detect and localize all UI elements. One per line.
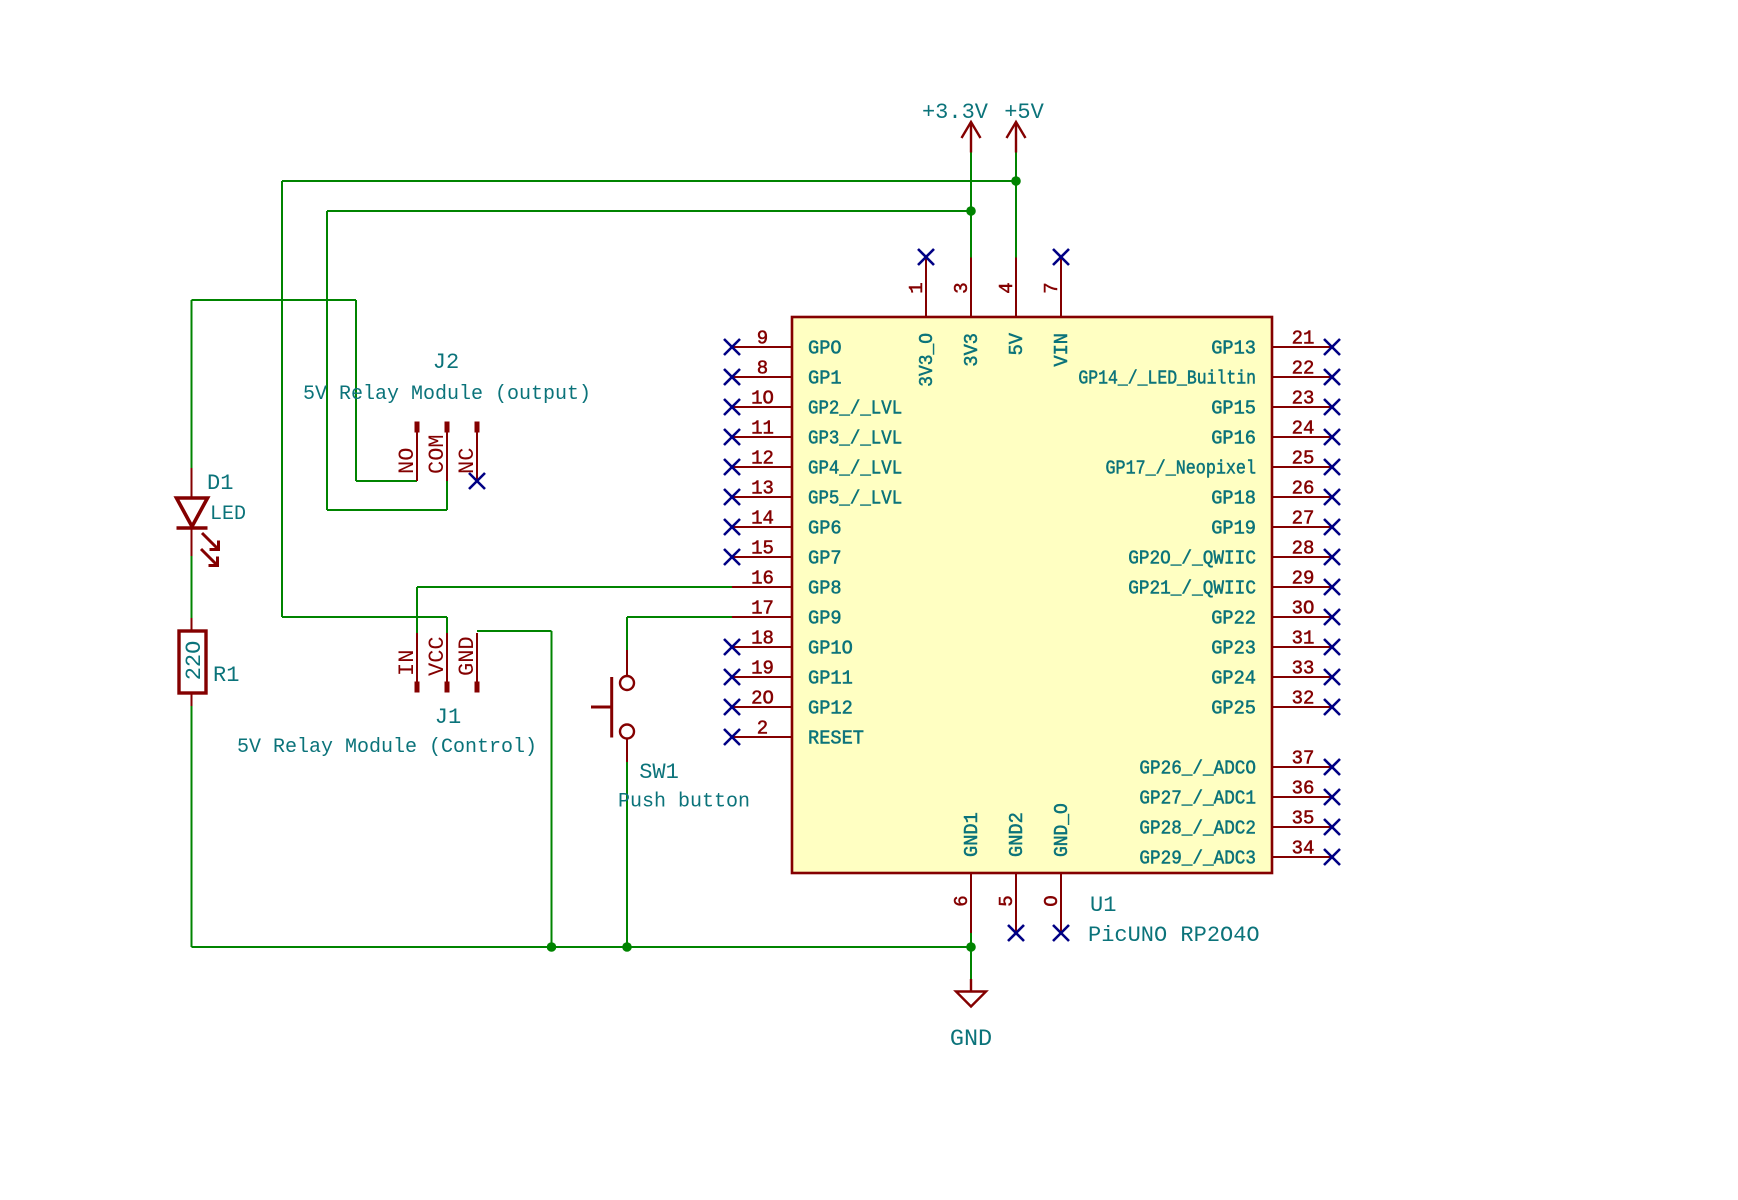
pin 18 GP10 (U1 left) (732, 628, 853, 660)
svg-text:37: 37 (1292, 748, 1315, 770)
pin 0 GND_O (U1 bottom) (1041, 803, 1073, 933)
pin 23 GP15 (U1 right) (1211, 388, 1332, 420)
svg-text:J1: J1 (435, 705, 461, 730)
wire +3.3V symbol to U1 3V3 pin (970, 153, 972, 258)
no-connect X on pin 2 (724, 729, 740, 745)
no-connect X on pin 25 (1324, 459, 1340, 475)
svg-text:21: 21 (1292, 328, 1315, 350)
svg-text:GP2_/_LVL: GP2_/_LVL (808, 398, 902, 420)
svg-text:GP23: GP23 (1211, 638, 1256, 660)
svg-text:12: 12 (751, 448, 774, 470)
pin 13 GP5_/_LVL (U1 left) (732, 478, 902, 510)
no-connect X on pin 14 (724, 519, 740, 535)
svg-text:3V3: 3V3 (961, 333, 983, 367)
svg-text:VCC: VCC (425, 636, 450, 676)
no-connect X on pin 7 (1053, 249, 1069, 265)
no-connect X on pin 10 (724, 399, 740, 415)
svg-text:GND2: GND2 (1006, 812, 1028, 857)
pin 21 GP13 (U1 right) (1211, 328, 1332, 360)
svg-text:GP18: GP18 (1211, 488, 1256, 510)
svg-text:36: 36 (1292, 778, 1315, 800)
no-connect X on pin 19 (724, 669, 740, 685)
svg-text:GP28_/_ADC2: GP28_/_ADC2 (1139, 818, 1256, 840)
node ground rail junction SW1 (622, 942, 632, 952)
no-connect X on pin 5 (1008, 925, 1024, 941)
svg-text:32: 32 (1292, 688, 1315, 710)
pin 32 GP25 (U1 right) (1211, 688, 1332, 720)
svg-text:22O: 22O (182, 641, 207, 681)
no-connect X on pin 23 (1324, 399, 1340, 415)
svg-text:GP6: GP6 (808, 518, 842, 540)
svg-text:GP21_/_QWIIC: GP21_/_QWIIC (1128, 578, 1256, 600)
svg-text:GP9: GP9 (808, 608, 842, 630)
svg-text:22: 22 (1292, 358, 1315, 380)
diode D1 LED symbol (177, 468, 219, 566)
svg-text:GP12: GP12 (808, 698, 853, 720)
no-connect X on pin 12 (724, 459, 740, 475)
pin 37 GP26_/_ADC0 (U1 right) (1139, 748, 1332, 780)
no-connect X on pin 36 (1324, 789, 1340, 805)
svg-text:13: 13 (751, 478, 774, 500)
pin 14 GP6 (U1 left) (732, 508, 842, 540)
no-connect X on pin 29 (1324, 579, 1340, 595)
power symbol +5V (1004, 100, 1044, 153)
svg-text:2: 2 (757, 718, 768, 740)
svg-text:24: 24 (1292, 418, 1315, 440)
svg-text:GP19: GP19 (1211, 518, 1256, 540)
svg-text:GP1O: GP1O (808, 638, 853, 660)
wire J2 NO vertical (355, 300, 357, 481)
svg-text:25: 25 (1292, 448, 1315, 470)
wire LED anode vertical (191, 300, 193, 468)
pin 4 5V (U1 top) (996, 257, 1028, 355)
power symbol +3.3V (922, 100, 989, 153)
pin 33 GP24 (U1 right) (1211, 658, 1332, 690)
wire +3.3V horizontal top (327, 210, 971, 212)
pin 25 GP17_/_Neopixel (U1 right) (1106, 448, 1333, 480)
no-connect X on pin 15 (724, 549, 740, 565)
svg-text:RESET: RESET (808, 728, 864, 750)
svg-text:GP2O_/_QWIIC: GP2O_/_QWIIC (1128, 548, 1256, 570)
svg-text:1O: 1O (751, 388, 774, 410)
pin 28 GP20_/_QWIIC (U1 right) (1128, 538, 1332, 570)
pin 5 GND2 (U1 bottom) (996, 812, 1028, 933)
pin 17 GP9 (U1 left) (732, 598, 842, 630)
svg-text:19: 19 (751, 658, 774, 680)
svg-text:3O: 3O (1292, 598, 1315, 620)
resistor R1 220 (179, 618, 206, 706)
no-connect X on pin 28 (1324, 549, 1340, 565)
svg-text:GP7: GP7 (808, 548, 842, 570)
wire +5V horizontal top (282, 180, 1016, 182)
no-connect X on pin 37 (1324, 759, 1340, 775)
svg-text:15: 15 (751, 538, 774, 560)
pin 3 3V3 (U1 top) (951, 257, 983, 367)
no-connect X on pin 0 (1053, 925, 1069, 941)
no-connect X on pin 1 (918, 249, 934, 265)
no-connect X on pin 31 (1324, 639, 1340, 655)
no-connect X on pin 30 (1324, 609, 1340, 625)
svg-text:GND1: GND1 (961, 812, 983, 857)
switch SW1 push button (591, 650, 634, 762)
wire J2 NO to LED horizontal (192, 299, 357, 301)
svg-text:GP14_/_LED_Builtin: GP14_/_LED_Builtin (1078, 368, 1256, 390)
svg-text:GPO: GPO (808, 338, 842, 360)
wire J2 COM stub up (446, 481, 448, 510)
svg-text:NC: NC (455, 448, 480, 474)
pin 30 GP22 (U1 right) (1211, 598, 1332, 630)
svg-text:5: 5 (996, 895, 1018, 906)
pin 20 GP12 (U1 left) (732, 688, 853, 720)
wire +5V to J1 VCC horizontal (282, 616, 447, 618)
no-connect X on pin 11 (724, 429, 740, 445)
svg-text:GND: GND (950, 1026, 992, 1053)
pin 8 GP1 (U1 left) (732, 358, 842, 390)
no-connect X on pin 22 (1324, 369, 1340, 385)
svg-text:GP27_/_ADC1: GP27_/_ADC1 (1139, 788, 1256, 810)
pin 10 GP2_/_LVL (U1 left) (732, 388, 902, 420)
svg-text:GP17_/_Neopixel: GP17_/_Neopixel (1106, 458, 1257, 480)
svg-text:5V Relay Module (Control): 5V Relay Module (Control) (237, 736, 537, 759)
svg-text:17: 17 (751, 598, 774, 620)
svg-text:GND: GND (455, 636, 480, 676)
svg-text:Push button: Push button (618, 791, 750, 814)
wire GP9 to SW1 horizontal (627, 616, 732, 618)
wire LED cathode to R1 (191, 556, 193, 618)
svg-text:PicUNO RP2O4O: PicUNO RP2O4O (1088, 923, 1260, 948)
svg-text:COM: COM (425, 434, 450, 474)
pin 6 GND1 (U1 bottom) (951, 812, 983, 933)
pin 1 3V3_O (U1 top) (906, 257, 938, 387)
wire ground rail (192, 946, 972, 948)
pin 26 GP18 (U1 right) (1211, 478, 1332, 510)
svg-text:7: 7 (1041, 282, 1063, 293)
pin 35 GP28_/_ADC2 (U1 right) (1139, 808, 1332, 840)
svg-text:16: 16 (751, 568, 774, 590)
svg-text:J2: J2 (433, 350, 459, 375)
wire R1 to ground rail (191, 706, 193, 947)
wire J1 VCC stub down (446, 617, 448, 633)
svg-text:GP22: GP22 (1211, 608, 1256, 630)
no-connect X on pin 35 (1324, 819, 1340, 835)
wire +5V symbol to U1 5V pin (1015, 153, 1017, 258)
no-connect X on pin 24 (1324, 429, 1340, 445)
svg-text:IN: IN (395, 650, 420, 676)
svg-text:6: 6 (951, 895, 973, 906)
svg-text:8: 8 (757, 358, 768, 380)
no-connect X on pin 9 (724, 339, 740, 355)
svg-text:GP11: GP11 (808, 668, 853, 690)
svg-text:GP4_/_LVL: GP4_/_LVL (808, 458, 902, 480)
svg-text:GP25: GP25 (1211, 698, 1256, 720)
node +3.3V junction at 3V3 pin (966, 206, 976, 216)
svg-text:3: 3 (951, 282, 973, 293)
pin 19 GP11 (U1 left) (732, 658, 853, 690)
svg-text:O: O (1041, 895, 1063, 906)
pin 7 VIN (U1 top) (1041, 257, 1073, 367)
pin 22 GP14_/_LED_Builtin (U1 right) (1078, 358, 1332, 390)
node ground rail junction GND1 (966, 942, 976, 952)
svg-text:27: 27 (1292, 508, 1315, 530)
pin 12 GP4_/_LVL (U1 left) (732, 448, 902, 480)
connector J1 5V Relay Module (Control) (395, 633, 480, 693)
svg-text:GP15: GP15 (1211, 398, 1256, 420)
svg-text:+3.3V: +3.3V (922, 100, 989, 125)
no-connect X on J2 NC (469, 473, 485, 489)
pin 11 GP3_/_LVL (U1 left) (732, 418, 902, 450)
no-connect X on pin 20 (724, 699, 740, 715)
wire J1 GND horizontal (477, 630, 552, 632)
no-connect X on pin 26 (1324, 489, 1340, 505)
ground symbol GND (950, 979, 992, 1053)
no-connect X on pin 8 (724, 369, 740, 385)
svg-text:GP3_/_LVL: GP3_/_LVL (808, 428, 902, 450)
svg-text:NO: NO (395, 448, 420, 474)
svg-text:GP16: GP16 (1211, 428, 1256, 450)
svg-text:D1: D1 (207, 471, 233, 496)
svg-text:2O: 2O (751, 688, 774, 710)
svg-text:34: 34 (1292, 838, 1315, 860)
svg-text:29: 29 (1292, 568, 1315, 590)
wire U1 GND1 to GND symbol (970, 933, 972, 979)
svg-text:18: 18 (751, 628, 774, 650)
svg-text:GP29_/_ADC3: GP29_/_ADC3 (1139, 848, 1256, 870)
svg-text:SW1: SW1 (639, 760, 679, 785)
svg-text:GP5_/_LVL: GP5_/_LVL (808, 488, 902, 510)
svg-text:+5V: +5V (1004, 100, 1044, 125)
svg-text:GND_O: GND_O (1051, 803, 1073, 857)
svg-text:31: 31 (1292, 628, 1315, 650)
pin 34 GP29_/_ADC3 (U1 right) (1139, 838, 1332, 870)
svg-text:9: 9 (757, 328, 768, 350)
svg-text:U1: U1 (1090, 893, 1116, 918)
wire +3.3V vertical left (326, 211, 328, 510)
svg-text:GP8: GP8 (808, 578, 842, 600)
svg-text:VIN: VIN (1051, 333, 1073, 367)
no-connect X on pin 21 (1324, 339, 1340, 355)
svg-text:28: 28 (1292, 538, 1315, 560)
svg-text:35: 35 (1292, 808, 1315, 830)
wire +3.3V to J2 COM horizontal (327, 509, 447, 511)
svg-text:14: 14 (751, 508, 774, 530)
IC U1 PicUNO RP2040 body (792, 317, 1272, 873)
node ground rail junction J1 GND (547, 942, 557, 952)
svg-text:5V: 5V (1006, 332, 1028, 355)
pin 36 GP27_/_ADC1 (U1 right) (1139, 778, 1332, 810)
svg-text:4: 4 (996, 282, 1018, 293)
no-connect X on pin 13 (724, 489, 740, 505)
pin 24 GP16 (U1 right) (1211, 418, 1332, 450)
svg-text:11: 11 (751, 418, 774, 440)
wire SW1 top stub (626, 617, 628, 650)
wire J1 IN stub down (416, 587, 418, 633)
no-connect X on pin 34 (1324, 849, 1340, 865)
svg-text:LED: LED (210, 503, 246, 526)
svg-text:3V3_O: 3V3_O (916, 333, 938, 387)
wire J1 GND vertical to rail (551, 631, 553, 947)
svg-text:5V Relay Module (output): 5V Relay Module (output) (303, 383, 591, 406)
pin 16 GP8 (U1 left) (732, 568, 842, 600)
svg-text:26: 26 (1292, 478, 1315, 500)
svg-text:1: 1 (906, 282, 928, 293)
svg-text:GP13: GP13 (1211, 338, 1256, 360)
pin 29 GP21_/_QWIIC (U1 right) (1128, 568, 1332, 600)
svg-text:GP24: GP24 (1211, 668, 1256, 690)
pin 9 GP0 (U1 left) (732, 328, 842, 360)
no-connect X on pin 27 (1324, 519, 1340, 535)
wire +5V vertical left (281, 181, 283, 617)
wire J2 NO stub (356, 480, 417, 482)
svg-text:GP1: GP1 (808, 368, 842, 390)
pin 2 RESET (U1 left) (732, 718, 864, 750)
node +5V junction at 5V pin (1011, 176, 1021, 186)
svg-text:R1: R1 (213, 663, 239, 688)
svg-text:33: 33 (1292, 658, 1315, 680)
no-connect X on pin 33 (1324, 669, 1340, 685)
pin 31 GP23 (U1 right) (1211, 628, 1332, 660)
connector J2 5V Relay Module (output) (395, 422, 480, 482)
pin 15 GP7 (U1 left) (732, 538, 842, 570)
no-connect X on pin 32 (1324, 699, 1340, 715)
svg-text:23: 23 (1292, 388, 1315, 410)
no-connect X on pin 18 (724, 639, 740, 655)
pin 27 GP19 (U1 right) (1211, 508, 1332, 540)
wire SW1 bottom to ground rail (626, 762, 628, 947)
wire GP8 to J1 IN horizontal (417, 586, 732, 588)
svg-text:GP26_/_ADCO: GP26_/_ADCO (1139, 758, 1256, 780)
